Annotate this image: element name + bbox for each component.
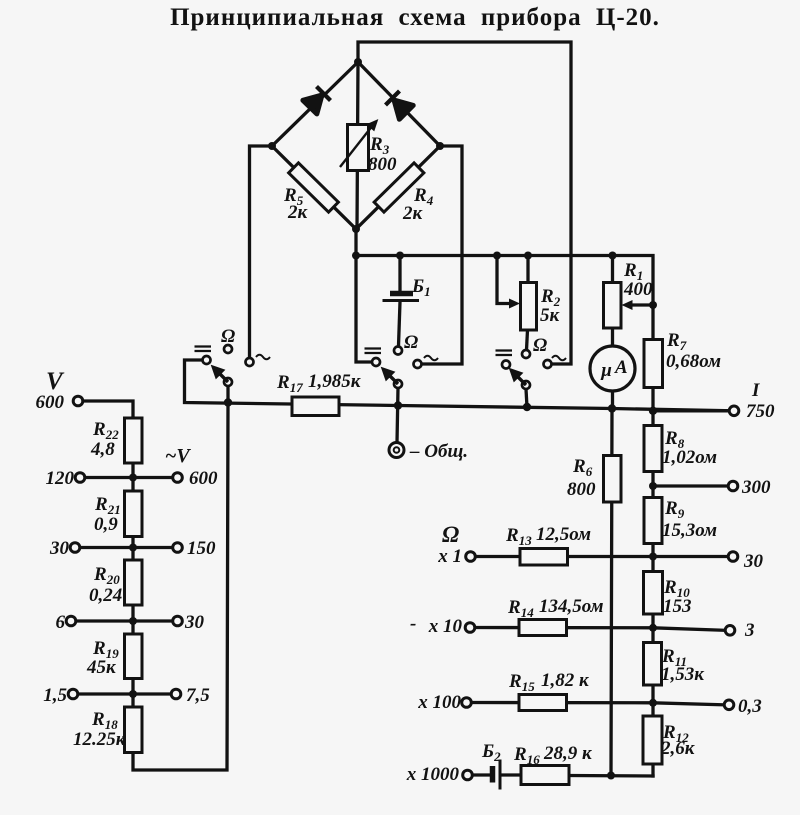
svg-text:R17: R17 [276, 372, 303, 395]
svg-text:120: 120 [46, 468, 75, 489]
svg-text:30: 30 [49, 538, 70, 559]
svg-text:30: 30 [184, 612, 205, 633]
svg-text:V: V [46, 368, 65, 395]
svg-text:х 100: х 100 [417, 692, 461, 713]
svg-text:R6: R6 [572, 456, 593, 479]
svg-text:400: 400 [623, 279, 653, 300]
svg-text:R16: R16 [513, 744, 540, 767]
svg-text:7,5: 7,5 [186, 685, 210, 706]
svg-text:2,6к: 2,6к [660, 738, 696, 759]
svg-text:0,3: 0,3 [738, 696, 762, 717]
svg-text:х 1000: х 1000 [406, 764, 460, 785]
svg-text:600: 600 [36, 392, 65, 413]
svg-text:-: - [410, 613, 416, 634]
svg-text:– Общ.: – Общ. [409, 441, 468, 462]
svg-text:Ω: Ω [533, 335, 547, 356]
svg-text:800: 800 [368, 154, 397, 175]
svg-text:R9: R9 [664, 498, 685, 521]
svg-text:х 1: х 1 [437, 546, 462, 567]
svg-text:0,68ом: 0,68ом [666, 351, 721, 372]
svg-text:5к: 5к [540, 305, 561, 326]
svg-text:800: 800 [567, 479, 596, 500]
svg-text:12.25к: 12.25к [73, 729, 127, 750]
svg-text:I: I [751, 380, 760, 401]
svg-text:28,9 к: 28,9 к [543, 743, 593, 764]
svg-text:Ω: Ω [404, 332, 418, 353]
svg-text:3: 3 [744, 620, 755, 641]
svg-text:Б1: Б1 [411, 276, 431, 299]
svg-text:300: 300 [741, 477, 771, 498]
svg-text:750: 750 [746, 401, 775, 422]
svg-text:R20: R20 [93, 564, 120, 587]
svg-text:134,5ом: 134,5ом [539, 596, 604, 617]
svg-text:30: 30 [743, 551, 764, 572]
svg-text:Б2: Б2 [481, 741, 501, 764]
svg-text:2к: 2к [287, 202, 309, 223]
svg-text:12,5ом: 12,5ом [536, 524, 591, 545]
svg-text:1,985к: 1,985к [308, 371, 362, 392]
svg-text:R13: R13 [505, 525, 532, 548]
svg-text:A: A [614, 357, 628, 378]
svg-text:1,02ом: 1,02ом [662, 447, 717, 468]
svg-text:Ω: Ω [221, 326, 235, 347]
svg-text:45к: 45к [86, 657, 117, 678]
svg-text:15,3ом: 15,3ом [662, 520, 717, 541]
svg-text:1,53к: 1,53к [661, 664, 705, 685]
svg-text:Ω: Ω [442, 522, 459, 547]
svg-text:R14: R14 [507, 597, 534, 620]
svg-text:0,24: 0,24 [89, 585, 122, 606]
svg-text:1,5: 1,5 [43, 685, 67, 706]
svg-text:µ: µ [600, 360, 612, 381]
svg-text:6: 6 [56, 612, 66, 633]
svg-text:Принципиальная схема прибора: Принципиальная схема прибора Ц-20. [170, 4, 660, 31]
svg-text:600: 600 [189, 468, 218, 489]
svg-text:R15: R15 [508, 671, 535, 694]
svg-text:4,8: 4,8 [90, 439, 115, 460]
svg-text:150: 150 [187, 538, 216, 559]
svg-text:R7: R7 [666, 330, 687, 353]
svg-text:1,82 к: 1,82 к [541, 670, 590, 691]
svg-text:2к: 2к [402, 203, 424, 224]
svg-text:153: 153 [663, 596, 692, 617]
svg-text:~V: ~V [165, 445, 191, 467]
svg-text:х 10: х 10 [428, 616, 463, 637]
svg-text:0,9: 0,9 [94, 514, 118, 535]
